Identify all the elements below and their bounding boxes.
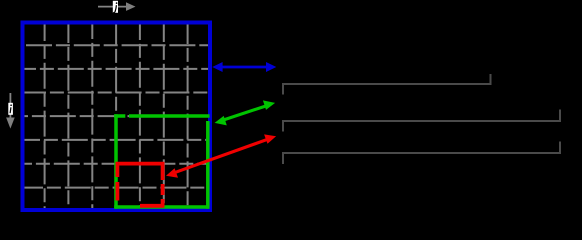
j axis arrow (top)	[98, 2, 136, 11]
grid horizontal line H1	[22, 44, 211, 46]
grid horizontal line H4	[22, 115, 211, 117]
i axis label box	[8, 103, 13, 115]
i axis arrow (left)	[6, 93, 15, 129]
blue double-headed arrow (image size)	[212, 62, 276, 72]
grid vertical line V4	[115, 22, 117, 211]
grid vertical line V7	[187, 22, 189, 211]
grid vertical line V2	[67, 22, 69, 211]
j axis label glyph	[113, 2, 117, 12]
grid horizontal line H6	[22, 163, 211, 165]
grid vertical line V3	[91, 22, 93, 211]
grid vertical line V1	[44, 22, 46, 211]
green search-window rectangle	[114, 114, 209, 209]
grid vertical line V6	[163, 22, 165, 211]
red template rectangle	[116, 164, 165, 208]
bracket under second (invisible) label line	[283, 110, 560, 132]
green double-headed arrow (search window)	[215, 100, 276, 125]
grid horizontal line H2	[22, 68, 211, 70]
bracket under third (invisible) label line	[283, 142, 560, 165]
bracket under first (invisible) label line	[283, 74, 491, 95]
grid horizontal line H7	[22, 187, 211, 189]
grid horizontal line H3	[22, 92, 211, 94]
red double-headed arrow (template)	[166, 134, 276, 177]
grid vertical line V5	[139, 22, 141, 211]
j axis label box	[113, 1, 118, 13]
blue image border rectangle	[23, 23, 211, 211]
i axis label glyph	[10, 104, 12, 113]
grid horizontal line H5	[22, 139, 211, 141]
